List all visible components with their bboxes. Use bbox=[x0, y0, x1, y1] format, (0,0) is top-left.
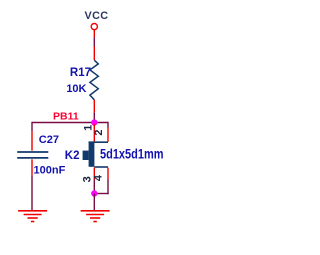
wire pin 3 to node bbox=[93, 180, 95, 194]
switch K2 body bbox=[65, 142, 164, 167]
svg-text:5d1x5d1mm: 5d1x5d1mm bbox=[100, 147, 164, 162]
svg-text:VCC: VCC bbox=[85, 10, 109, 22]
capacitor C27 bbox=[17, 134, 65, 176]
svg-text:PB11: PB11 bbox=[53, 111, 79, 123]
junction node PB11 bbox=[91, 119, 97, 125]
resistor R17 bbox=[66, 60, 98, 100]
wire bottom horizontal bbox=[94, 193, 108, 195]
capacitor C27 pin 1 bbox=[31, 131, 33, 150]
svg-text:K2: K2 bbox=[65, 150, 80, 162]
svg-text:C27: C27 bbox=[39, 134, 59, 146]
switch K2 pin 1 bbox=[93, 124, 95, 142]
ground left bbox=[18, 211, 47, 222]
wire node to pin 2 bbox=[107, 122, 109, 128]
resistor R1 pin 1 bbox=[93, 47, 95, 61]
ground right bbox=[81, 211, 110, 222]
svg-text:2: 2 bbox=[93, 129, 105, 135]
switch K2 pin 3 bbox=[93, 168, 95, 180]
wire C27 to ground bbox=[31, 175, 33, 210]
svg-text:3: 3 bbox=[81, 176, 93, 182]
capacitor C27 pin 2 bbox=[31, 159, 33, 175]
switch K2 pin 4 bbox=[107, 168, 109, 180]
switch K2 pin 2 bbox=[107, 128, 109, 142]
svg-text:100nF: 100nF bbox=[34, 164, 66, 176]
wire pin 4 to node bbox=[107, 180, 109, 195]
wire VCC to R17 bbox=[93, 37, 95, 46]
power port VCC bbox=[85, 10, 109, 37]
wire R17 to node bbox=[93, 112, 95, 122]
junction node bottom bbox=[91, 190, 97, 196]
wire node to ground bbox=[93, 194, 95, 211]
svg-text:R17: R17 bbox=[70, 67, 91, 79]
wire down to C27 bbox=[31, 122, 33, 132]
wire node to C27 and K2 bbox=[32, 122, 108, 124]
svg-text:10K: 10K bbox=[66, 83, 86, 95]
resistor R17 pin 2 bbox=[93, 100, 95, 113]
